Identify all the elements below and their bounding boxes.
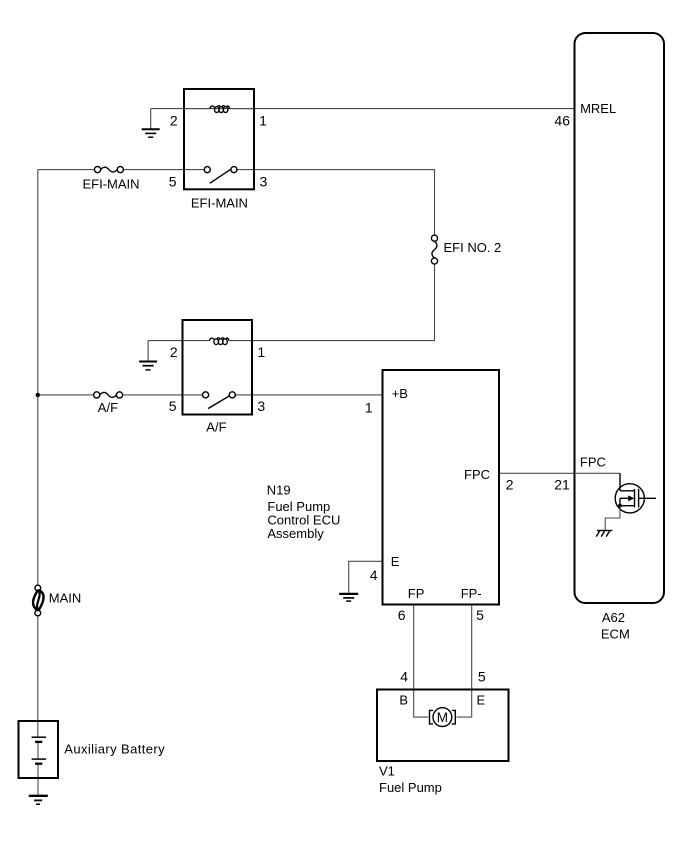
svg-text:5: 5 <box>476 607 484 623</box>
svg-text:Assembly: Assembly <box>267 526 324 541</box>
svg-text:A/F: A/F <box>206 420 226 435</box>
svg-text:2: 2 <box>506 477 514 493</box>
battery (Auxiliary Battery) box <box>19 721 59 778</box>
svg-text:1: 1 <box>257 344 265 360</box>
fuel pump V1 box <box>377 690 509 762</box>
svg-text:1: 1 <box>259 112 267 128</box>
svg-text:2: 2 <box>170 112 178 128</box>
relay2 coil <box>209 338 229 345</box>
wire: row D rail junction to A/F fuse <box>38 394 94 396</box>
svg-text:4: 4 <box>400 669 408 685</box>
wire: relay2 coil row inside <box>183 340 210 342</box>
svg-text:A62: A62 <box>602 610 625 625</box>
ground below battery <box>29 796 48 804</box>
svg-text:A/F: A/F <box>98 400 118 415</box>
node: junction of rail and row D <box>36 393 40 397</box>
wire: ECU FPC pin 2 to ECM pin 21 <box>499 472 575 474</box>
ECM A62 box <box>575 33 665 603</box>
svg-text:ECM: ECM <box>601 627 630 642</box>
gate lead <box>639 497 656 499</box>
relay2 switch <box>203 392 209 398</box>
svg-text:21: 21 <box>554 477 570 493</box>
chassis ground for Q1 <box>597 530 612 532</box>
svg-text:FPC: FPC <box>580 454 606 469</box>
svg-text:Fuel Pump: Fuel Pump <box>379 780 442 795</box>
svg-text:FP-: FP- <box>461 586 482 601</box>
source connection <box>620 505 635 507</box>
svg-text:46: 46 <box>554 113 570 129</box>
wire: EFI-MAIN fuse to relay pin 5 <box>123 169 204 171</box>
ground for ECU pin E <box>339 594 358 601</box>
body arrow <box>620 497 629 499</box>
wire: ECU FP pin 6 to pump pin 4 <box>414 605 429 718</box>
wire: battery to ground <box>37 764 39 796</box>
relay EFI-MAIN box <box>184 89 254 189</box>
channel bar <box>634 489 636 508</box>
wire: relay2 pin 3 to ECU +B pin 1 <box>235 394 382 396</box>
fuse A/F <box>94 392 123 415</box>
svg-text:5: 5 <box>169 174 177 190</box>
svg-text:1: 1 <box>365 400 373 416</box>
fuse EFI-MAIN <box>83 167 140 192</box>
wire: relay1 switch pin 3 to EFI NO.2 fuse (right then down) <box>237 170 435 236</box>
ground for relay1 coil <box>142 109 160 138</box>
svg-text:M: M <box>437 710 448 725</box>
svg-text:5: 5 <box>478 669 486 685</box>
svg-text:+B: +B <box>392 386 408 401</box>
svg-text:3: 3 <box>260 174 268 190</box>
svg-text:2: 2 <box>170 344 178 360</box>
relay1 coil <box>210 106 230 113</box>
svg-text:E: E <box>477 692 486 707</box>
svg-text:MREL: MREL <box>580 101 616 116</box>
wire: A/F fuse to relay2 pin 5 <box>123 394 203 396</box>
gate bar <box>638 489 640 508</box>
wire: row B from rail to EFI-MAIN fuse <box>38 169 95 171</box>
svg-text:FP: FP <box>408 586 425 601</box>
drain connection <box>620 473 635 491</box>
svg-text:Auxiliary Battery: Auxiliary Battery <box>64 741 165 756</box>
svg-text:5: 5 <box>169 398 177 414</box>
fuse EFI NO. 2 <box>431 235 501 264</box>
svg-text:V1: V1 <box>379 764 395 779</box>
svg-text:EFI NO. 2: EFI NO. 2 <box>444 240 502 255</box>
ECU N19 box (Fuel Pump Control ECU Assembly) <box>383 370 500 605</box>
fusible link MAIN <box>33 585 81 616</box>
svg-text:N19: N19 <box>267 483 291 498</box>
transistor Q1 (MOSFET inside ECM) <box>575 473 657 536</box>
wire: ECU E pin 4 to ground <box>349 561 383 594</box>
wire: battery positive rail (left vertical) <box>37 170 39 586</box>
svg-text:EFI-MAIN: EFI-MAIN <box>191 196 248 211</box>
svg-text:3: 3 <box>257 398 265 414</box>
battery cell plates <box>32 737 46 764</box>
relay1 switch <box>204 167 210 173</box>
relay A/F box <box>183 320 253 415</box>
wire: relay1 coil row (pin2 to ground, pin1 to ECM pin 46) <box>151 108 254 110</box>
svg-text:FPC: FPC <box>464 467 490 482</box>
motor M1 <box>430 708 456 727</box>
relay1 coil row wire <box>184 108 210 110</box>
wire: EFI NO.2 fuse to A/F relay coil pin 1 <box>252 264 435 341</box>
svg-text:EFI-MAIN: EFI-MAIN <box>83 177 140 192</box>
wire: ECU FP- pin 5 to pump pin 5 <box>457 605 472 718</box>
svg-text:B: B <box>399 692 408 707</box>
svg-text:E: E <box>391 554 400 569</box>
svg-text:4: 4 <box>370 567 378 583</box>
svg-text:6: 6 <box>398 607 406 623</box>
ground for relay2 coil <box>139 341 157 370</box>
svg-text:MAIN: MAIN <box>49 590 82 605</box>
wire: relay2 coil row pin 2 to ground <box>148 340 182 342</box>
